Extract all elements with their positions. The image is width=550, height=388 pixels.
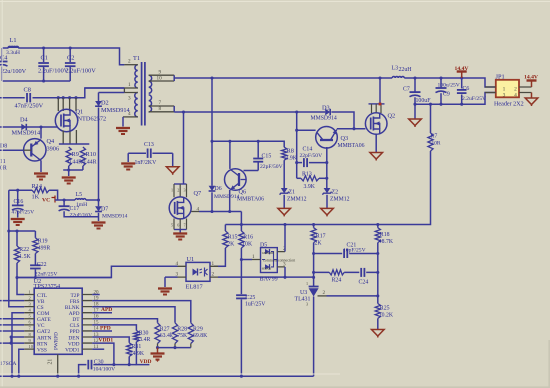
svg-text:MMBTA06: MMBTA06	[237, 196, 264, 202]
wire PPD pin14	[92, 326, 112, 332]
wire GAT2 pin7	[0, 330, 24, 332]
pin 2 of U3	[318, 290, 327, 296]
resistor R31	[127, 343, 145, 365]
wire U1 pin4	[17, 266, 178, 277]
svg-text:D4: D4	[20, 117, 29, 124]
svg-text:T1: T1	[133, 55, 140, 62]
wire secondary lower rail	[174, 110, 325, 113]
svg-text:2: 2	[128, 59, 131, 65]
wire CTL to pin1	[17, 278, 24, 295]
svg-text:R18: R18	[380, 232, 390, 238]
svg-text:47nF/250V: 47nF/250V	[15, 103, 44, 110]
ground under Z1	[278, 208, 291, 216]
wire CTL top	[7, 229, 35, 232]
pin 3 of T1	[124, 88, 137, 102]
transistor Q1 source leads	[59, 130, 89, 144]
transistor Q7 top bracket	[171, 184, 187, 197]
svg-text:3.9K: 3.9K	[286, 155, 298, 161]
svg-text:0.44R: 0.44R	[68, 160, 82, 166]
resistor R16	[239, 225, 253, 260]
wire D5 pin1	[240, 258, 252, 261]
capacitor C22	[30, 262, 57, 278]
ground C13 left	[121, 164, 135, 170]
svg-text:VC: VC	[42, 197, 50, 203]
transformer T1 secondary winding lower	[149, 95, 152, 112]
svg-text:8: 8	[159, 106, 162, 112]
svg-text:R17: R17	[316, 233, 326, 239]
svg-text:cathode: cathode	[262, 250, 275, 255]
svg-text:anode: anode	[262, 265, 272, 270]
inductor L1	[6, 37, 20, 56]
wire CLS pin15	[92, 325, 136, 330]
svg-text:R7: R7	[431, 133, 438, 139]
svg-text:2.2uF/25V: 2.2uF/25V	[462, 96, 486, 102]
wire DEN pin13	[92, 337, 129, 343]
svg-text:104/100V: 104/100V	[93, 366, 115, 372]
svg-text:C17: C17	[70, 206, 80, 212]
svg-text:2: 2	[177, 188, 179, 193]
transformer T1 core	[133, 55, 145, 126]
pins JP1	[485, 87, 532, 93]
diode D2	[95, 93, 130, 201]
connector JP1	[494, 73, 524, 107]
svg-text:7: 7	[29, 326, 32, 331]
ground under R9 R10	[62, 178, 76, 184]
wire Q4 base	[0, 149, 31, 151]
capacitor C8	[0, 87, 124, 110]
svg-text:MMSD914: MMSD914	[311, 115, 337, 121]
svg-text:C8: C8	[24, 87, 31, 94]
resistor R22	[14, 231, 31, 278]
capacitor C15	[253, 141, 282, 170]
pin 7 of T1	[149, 100, 175, 106]
svg-text:D6: D6	[215, 186, 222, 192]
svg-text:C2: C2	[67, 55, 74, 62]
diode D5	[260, 242, 296, 282]
svg-text:3.9K: 3.9K	[304, 184, 316, 190]
wire FRS pin19	[92, 301, 191, 323]
pin 4 of T1	[123, 111, 138, 117]
resistor R14	[9, 183, 58, 200]
capacitor C25	[236, 260, 266, 377]
svg-text:3: 3	[184, 188, 186, 193]
pin 10 of T1	[149, 75, 175, 81]
ground C13 right	[166, 167, 179, 175]
svg-text:MMSD914: MMSD914	[214, 194, 240, 200]
resistor R29	[188, 323, 208, 348]
wire sense node riser	[240, 212, 242, 225]
wire T2P pin20	[92, 294, 100, 296]
svg-text:C6: C6	[463, 86, 470, 92]
pin 4 of Q7	[191, 206, 199, 212]
wire T1 to Q7	[183, 112, 185, 184]
svg-text:MMSD914: MMSD914	[101, 107, 131, 114]
wire Q6 emitter	[229, 190, 231, 212]
diode D7	[95, 200, 128, 221]
svg-text:R29: R29	[193, 326, 203, 332]
wire Q4 collector	[40, 161, 42, 173]
svg-text:4: 4	[128, 111, 131, 117]
ground under Z2	[321, 208, 334, 216]
transistor Q1 drain leads	[58, 98, 76, 111]
transistor Q2	[365, 112, 395, 134]
svg-text:22nF/25V: 22nF/25V	[35, 272, 58, 278]
wire COM pin4	[10, 313, 24, 378]
transistor Q7	[169, 190, 201, 219]
svg-text:R28: R28	[177, 326, 187, 332]
svg-text:2K: 2K	[227, 241, 235, 247]
svg-text:3906: 3906	[47, 146, 60, 153]
capacitor C2	[65, 48, 96, 81]
wire Q4 emitter	[40, 127, 42, 139]
svg-text:C4: C4	[0, 55, 8, 62]
svg-text:1: 1	[128, 82, 131, 88]
wire GATE pin5	[0, 318, 24, 320]
wire Q7 pin4 node	[199, 210, 241, 213]
pins U1	[176, 261, 219, 278]
capacitor C24	[359, 268, 369, 285]
svg-text:1.5K: 1.5K	[19, 254, 31, 260]
svg-text:D3: D3	[322, 104, 330, 111]
svg-text:3: 3	[503, 93, 506, 99]
svg-text:TL431: TL431	[295, 296, 311, 302]
wire Q2 drain	[379, 78, 381, 104]
svg-text:U1: U1	[187, 256, 195, 263]
svg-text:2: 2	[323, 290, 326, 296]
transistor Q7 bottom bracket	[171, 219, 187, 233]
capacitor C17	[59, 200, 99, 218]
capacitor C4	[0, 48, 27, 81]
svg-text:22u/100V: 22u/100V	[1, 68, 27, 75]
svg-text:Q2: Q2	[388, 112, 396, 119]
diode D3	[311, 104, 355, 128]
ground under Q7	[173, 234, 187, 240]
power 14.4V header	[524, 75, 539, 88]
svg-text:1K: 1K	[32, 193, 40, 200]
svg-text:22pF/50V: 22pF/50V	[300, 153, 323, 159]
resistor R28	[172, 323, 188, 348]
svg-text:3: 3	[283, 261, 286, 267]
net label VC	[42, 196, 55, 204]
svg-text:common connection: common connection	[263, 258, 295, 263]
svg-text:VSS: VSS	[37, 347, 47, 353]
svg-text:R24: R24	[332, 277, 342, 283]
svg-text:48.7K: 48.7K	[379, 239, 394, 245]
svg-text:24.9K: 24.9K	[130, 351, 145, 357]
capacitor C13	[128, 142, 173, 167]
svg-text:5: 5	[171, 223, 173, 228]
svg-text:0R: 0R	[0, 166, 7, 172]
svg-text:MMBTA06: MMBTA06	[338, 143, 365, 149]
pin 1 of T1	[124, 82, 137, 88]
pins D5	[252, 246, 286, 267]
svg-text:TPS23754: TPS23754	[34, 283, 61, 290]
svg-text:NTD62572: NTD62572	[78, 116, 107, 123]
inductor L3	[392, 66, 413, 79]
svg-text:3: 3	[306, 302, 308, 307]
wire T1 pin4 to ground	[122, 117, 124, 127]
svg-text:2: 2	[29, 295, 31, 300]
svg-text:21: 21	[48, 359, 54, 365]
capacitor C1	[38, 48, 69, 81]
svg-text:R30: R30	[139, 330, 149, 336]
wire VSS pin10	[17, 349, 24, 378]
label D8 clipped	[0, 144, 7, 172]
svg-text:VDD1: VDD1	[65, 347, 80, 353]
wire Q2 source	[375, 134, 377, 152]
svg-text:69.8K: 69.8K	[193, 333, 208, 339]
capacitor C16	[12, 190, 35, 217]
resistor R19	[33, 231, 51, 265]
svg-text:2.2uF/100V: 2.2uF/100V	[38, 68, 69, 75]
svg-text:L1: L1	[10, 37, 17, 44]
svg-text:3: 3	[128, 96, 131, 102]
svg-text:R16: R16	[243, 234, 253, 240]
resistor R18	[375, 225, 394, 304]
svg-text:1: 1	[212, 261, 215, 267]
svg-text:63.4R: 63.4R	[136, 337, 150, 343]
capacitor C6	[457, 78, 486, 104]
svg-text:R10: R10	[86, 151, 97, 158]
svg-text:R25: R25	[380, 305, 390, 311]
svg-text:R15: R15	[228, 234, 238, 240]
wire R9 R10 bottom tie	[63, 166, 83, 176]
svg-text:ZMM12: ZMM12	[330, 197, 350, 203]
svg-text:7: 7	[184, 223, 186, 228]
transistor Q2 top bracket	[369, 103, 385, 113]
ground under C7	[409, 119, 422, 127]
svg-text:3: 3	[29, 301, 32, 306]
svg-text:PWRPD: PWRPD	[54, 332, 60, 350]
wire VDD pin12	[92, 338, 114, 365]
svg-text:2: 2	[212, 272, 215, 278]
svg-text:ZMM12: ZMM12	[287, 197, 307, 203]
svg-text:1: 1	[252, 254, 255, 260]
wire VC pin6	[0, 324, 24, 326]
resistor R15	[214, 225, 241, 267]
svg-text:8: 8	[29, 332, 32, 337]
svg-text:VDD1: VDD1	[99, 338, 114, 344]
ground JP1	[525, 93, 538, 107]
svg-text:C1: C1	[41, 55, 48, 62]
net label VDD	[140, 359, 152, 365]
wire VDD1 pin11	[92, 348, 104, 350]
wire VC rail	[55, 198, 100, 201]
wire gate drive	[0, 125, 57, 128]
svg-text:1nF/2KV: 1nF/2KV	[135, 160, 158, 166]
resistor R27	[155, 323, 173, 348]
transformer T1 primary winding upper	[135, 65, 138, 88]
svg-text:Header 2X2: Header 2X2	[494, 101, 524, 107]
svg-text:L5: L5	[76, 192, 83, 198]
resistor R10	[80, 147, 96, 166]
transformer T1 primary winding lower	[135, 93, 138, 117]
svg-text:APD: APD	[101, 307, 112, 313]
svg-text:D7: D7	[101, 207, 108, 213]
capacitor C30	[79, 359, 137, 376]
wire bottom rail	[0, 375, 314, 378]
pins U2	[24, 289, 99, 350]
ground under D7	[92, 223, 106, 229]
svg-text:Q7: Q7	[194, 190, 202, 197]
transistor Q6	[225, 169, 265, 203]
wire Q3 emitter to Q2 gate	[337, 127, 366, 130]
svg-text:3.3uH: 3.3uH	[6, 50, 20, 56]
wire Q6 collector	[229, 141, 231, 169]
svg-text:10: 10	[157, 75, 163, 81]
svg-text:C16: C16	[14, 199, 24, 205]
svg-text:C24: C24	[359, 279, 369, 285]
wire Q6 base	[244, 170, 259, 172]
transistor Q3	[316, 127, 365, 149]
diode D4	[12, 117, 42, 137]
svg-text:C7: C7	[403, 87, 410, 93]
svg-text:5: 5	[29, 314, 32, 319]
svg-text:C25: C25	[246, 295, 256, 301]
wire CTL bottom	[15, 276, 111, 279]
pin 2 of T1	[124, 59, 137, 65]
svg-text:1: 1	[503, 86, 506, 92]
svg-text:C15: C15	[262, 153, 272, 159]
svg-text:4: 4	[514, 93, 517, 99]
svg-text:14.4V: 14.4V	[524, 75, 539, 81]
transformer T1 secondary winding upper	[149, 75, 152, 93]
svg-text:1: 1	[171, 188, 173, 193]
svg-text:MMSD914: MMSD914	[12, 130, 42, 137]
svg-text:PPD: PPD	[100, 326, 111, 332]
svg-text:10R: 10R	[432, 140, 441, 146]
wire input bottom rail	[2, 79, 70, 82]
wire ARTN RTN pins	[0, 335, 24, 344]
zener Z1	[280, 188, 307, 208]
wire output mid rail	[413, 93, 496, 106]
zener Z2	[322, 188, 349, 208]
svg-text:C30: C30	[94, 359, 104, 365]
wire APD pin17	[92, 307, 112, 313]
svg-text:R9: R9	[72, 151, 79, 158]
ground under R25	[372, 330, 385, 338]
svg-text:6: 6	[177, 223, 179, 228]
svg-text:D5: D5	[260, 242, 267, 248]
svg-text:Q6: Q6	[239, 189, 247, 196]
shunt regulator U3 TL431	[295, 281, 319, 376]
optocoupler U1	[186, 256, 211, 290]
wire aux node	[210, 140, 284, 147]
transistor Q4	[24, 138, 59, 161]
svg-text:D2: D2	[101, 100, 109, 107]
svg-text:6: 6	[29, 320, 32, 325]
wire collector branch	[295, 112, 315, 178]
ground U1 pin3	[158, 289, 172, 295]
wire C7 ground stem	[414, 104, 416, 119]
resistor R30	[134, 330, 151, 365]
svg-text:4: 4	[29, 308, 32, 313]
svg-text:R31: R31	[132, 344, 142, 350]
label clipped left	[0, 361, 16, 367]
svg-text:Q4: Q4	[47, 138, 56, 145]
ground under Q2	[370, 153, 383, 161]
svg-text:10: 10	[29, 344, 34, 349]
wire BLNK pin18	[92, 307, 175, 323]
wire comp	[314, 271, 378, 273]
svg-text:R8: R8	[287, 147, 294, 154]
svg-text:BAV99: BAV99	[260, 277, 278, 283]
ground under Q4	[34, 174, 48, 180]
svg-text:C13: C13	[144, 142, 154, 148]
svg-text:9: 9	[29, 338, 32, 343]
ic U2 TPS23754	[34, 278, 83, 355]
wire bias tie	[156, 346, 191, 349]
wire secondary top rail	[174, 76, 496, 87]
pin 9 of T1	[149, 69, 175, 75]
svg-text:2: 2	[514, 86, 517, 92]
resistor R25	[375, 304, 394, 330]
wire U1 pin2	[218, 276, 315, 279]
svg-text:22uH: 22uH	[399, 67, 413, 73]
power 14.4V output	[455, 66, 470, 78]
wire input top rail	[2, 46, 124, 64]
svg-text:2K: 2K	[315, 240, 323, 246]
svg-text:75K: 75K	[177, 333, 188, 339]
svg-text:11: 11	[0, 159, 6, 165]
resistor R13	[297, 171, 327, 190]
svg-text:JP1: JP1	[496, 73, 505, 80]
resistor R8	[282, 147, 298, 188]
resistor R24	[329, 270, 344, 284]
resistor R17	[311, 225, 326, 287]
wire CS riser	[9, 190, 24, 307]
svg-text:EL817: EL817	[186, 283, 203, 290]
pin 8 of T1	[149, 106, 175, 112]
svg-text:Q1: Q1	[76, 109, 84, 116]
wire U1 pin3 to ground	[165, 277, 178, 287]
wire Q3 base	[325, 147, 328, 188]
svg-text:Z2: Z2	[332, 189, 339, 195]
svg-text:499R: 499R	[38, 245, 51, 251]
ground bias	[151, 348, 165, 362]
wire DT pin16	[92, 319, 157, 323]
capacitor C9	[436, 78, 460, 104]
svg-text:Z1: Z1	[289, 189, 296, 195]
wire VB pin2	[0, 300, 24, 302]
capacitor C7	[403, 78, 431, 104]
diode D6	[209, 78, 240, 212]
svg-text:1: 1	[29, 289, 31, 294]
svg-text:C9: C9	[443, 91, 450, 97]
svg-text:R19: R19	[38, 238, 48, 244]
wire D5 pin3 drop	[284, 267, 286, 277]
svg-text:1uF/25V: 1uF/25V	[245, 302, 266, 308]
svg-text:U3: U3	[300, 290, 307, 296]
ground under C16	[11, 219, 25, 225]
svg-text:1: 1	[306, 281, 308, 286]
svg-text:63.4k: 63.4k	[160, 333, 173, 339]
svg-text:100u/25V: 100u/25V	[438, 82, 460, 88]
svg-text:22uF/16V: 22uF/16V	[70, 212, 93, 218]
svg-text:14.4V: 14.4V	[455, 66, 470, 72]
svg-text:VDD: VDD	[140, 359, 152, 365]
svg-text:Q3: Q3	[341, 135, 349, 142]
resistor R9	[66, 147, 82, 166]
svg-text:2.2uF/100V: 2.2uF/100V	[66, 68, 97, 75]
wire secondary ties	[173, 75, 175, 112]
svg-text:C22: C22	[37, 262, 47, 268]
capacitor C21	[314, 243, 378, 259]
svg-text:MMSD914: MMSD914	[102, 213, 128, 219]
wire U1 pin1	[218, 265, 225, 267]
svg-text:R27: R27	[160, 326, 170, 332]
svg-text:R14: R14	[32, 183, 43, 190]
